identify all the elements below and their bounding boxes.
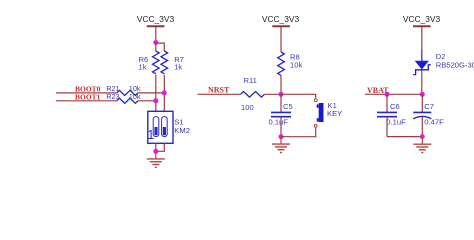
ground middle	[272, 137, 290, 153]
wire NRST	[198, 93, 241, 95]
resistor R6	[153, 51, 160, 74]
svg-text:KEY: KEY	[327, 109, 342, 118]
push button K1 top terminal	[314, 99, 317, 102]
switch S1 body	[148, 111, 173, 143]
wire R6 column	[155, 75, 157, 112]
svg-text:0.1uF: 0.1uF	[386, 118, 406, 127]
wire	[156, 43, 165, 51]
wire bottom rail	[387, 136, 422, 138]
wire	[155, 143, 157, 151]
junction node	[420, 134, 425, 139]
wire to key	[281, 94, 316, 98]
resistor R23	[117, 98, 138, 103]
svg-text:1k: 1k	[174, 63, 182, 72]
resistor R11	[241, 92, 265, 98]
power port VCC_3V3 right bar	[413, 25, 431, 27]
svg-text:VCC_3V3: VCC_3V3	[403, 14, 441, 24]
push button K1 bottom terminal	[314, 125, 317, 128]
capacitor C6	[386, 94, 388, 112]
wire	[421, 26, 423, 49]
svg-text:0.47F: 0.47F	[424, 118, 444, 127]
wire BOOT0	[56, 92, 117, 94]
svg-text:R23: R23	[106, 92, 119, 101]
wire	[280, 117, 282, 137]
junction node	[162, 90, 167, 95]
wire	[281, 128, 316, 137]
power port VCC_3V3 middle bar	[272, 25, 290, 27]
wire	[421, 71, 423, 95]
svg-text:1: 1	[147, 128, 154, 142]
diode D2 schottky bar	[413, 65, 431, 75]
capacitor C7 polarized	[421, 94, 423, 112]
wire R7 column	[163, 75, 165, 112]
junction node	[153, 98, 158, 103]
switch S1 slot 2	[162, 117, 168, 137]
push button K1 actuator	[319, 103, 324, 122]
junction node	[153, 40, 158, 45]
svg-text:10k: 10k	[129, 92, 141, 101]
switch S1 slot 1	[153, 117, 159, 137]
wire	[421, 117, 423, 137]
svg-text:R11: R11	[244, 76, 257, 85]
svg-text:1k: 1k	[139, 63, 147, 72]
diode D2 anode pin	[421, 50, 423, 62]
svg-text:RB520G-30: RB520G-30	[436, 61, 474, 70]
svg-text:VCC_3V3: VCC_3V3	[137, 14, 175, 24]
svg-text:0.1uF: 0.1uF	[269, 118, 289, 127]
wire	[138, 100, 156, 102]
junction node	[279, 134, 284, 139]
wire	[155, 43, 157, 52]
junction node	[279, 92, 284, 97]
wire	[138, 92, 164, 94]
junction node	[153, 149, 158, 154]
svg-text:10k: 10k	[290, 60, 302, 69]
diode D2 triangle	[415, 61, 428, 69]
svg-text:BOOT1: BOOT1	[75, 92, 101, 101]
wire	[280, 75, 282, 94]
wire	[280, 26, 282, 52]
switch S1 slider 2	[163, 127, 166, 135]
resistor R21	[117, 90, 138, 95]
svg-text:100: 100	[241, 103, 254, 112]
wire VBAT	[365, 93, 423, 95]
svg-text:C6: C6	[390, 102, 400, 111]
resistor R7	[161, 51, 168, 74]
wire BOOT1	[56, 100, 117, 102]
wire	[155, 26, 157, 42]
ground right	[413, 137, 431, 153]
svg-text:KM2: KM2	[174, 126, 190, 135]
svg-text:C5: C5	[283, 102, 293, 111]
junction node	[385, 92, 390, 97]
resistor R8	[278, 52, 285, 75]
ground left	[147, 151, 165, 167]
junction node	[420, 92, 425, 97]
svg-text:VCC_3V3: VCC_3V3	[262, 14, 300, 24]
capacitor C5	[280, 94, 282, 112]
wire	[386, 117, 388, 137]
wire	[156, 143, 165, 151]
switch S1 slider 1	[154, 127, 157, 135]
svg-text:NRST: NRST	[208, 86, 230, 95]
svg-text:C7: C7	[424, 102, 434, 111]
power port VCC_3V3 left bar	[147, 25, 165, 27]
wire	[265, 93, 282, 95]
